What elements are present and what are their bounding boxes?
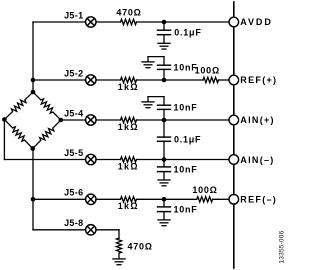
svg-text:10nF: 10nF xyxy=(174,164,198,174)
svg-text:13355-006: 13355-006 xyxy=(279,230,286,263)
svg-text:J5-6: J5-6 xyxy=(64,188,83,198)
svg-text:AVDD: AVDD xyxy=(240,17,272,27)
svg-text:0.1μF: 0.1μF xyxy=(174,134,201,144)
svg-text:0.1μF: 0.1μF xyxy=(174,28,201,38)
svg-text:1kΩ: 1kΩ xyxy=(118,122,139,132)
svg-text:470Ω: 470Ω xyxy=(116,7,141,17)
svg-text:10nF: 10nF xyxy=(174,102,198,112)
svg-text:AIN(–): AIN(–) xyxy=(240,155,274,165)
svg-text:100Ω: 100Ω xyxy=(195,66,220,76)
svg-text:100Ω: 100Ω xyxy=(192,185,217,195)
svg-text:AIN(+): AIN(+) xyxy=(240,115,275,125)
svg-text:REF(+): REF(+) xyxy=(240,75,277,85)
svg-text:REF(–): REF(–) xyxy=(240,195,277,205)
svg-text:1kΩ: 1kΩ xyxy=(118,161,139,171)
svg-text:470Ω: 470Ω xyxy=(128,241,153,251)
svg-text:J5-1: J5-1 xyxy=(64,10,83,20)
svg-text:J5-4: J5-4 xyxy=(64,108,83,118)
svg-text:J5-5: J5-5 xyxy=(64,148,83,158)
svg-text:1kΩ: 1kΩ xyxy=(118,201,139,211)
svg-text:10nF: 10nF xyxy=(174,204,198,214)
svg-text:1kΩ: 1kΩ xyxy=(118,82,139,92)
svg-text:J5-2: J5-2 xyxy=(64,68,83,78)
svg-text:10nF: 10nF xyxy=(174,62,198,72)
svg-text:J5-8: J5-8 xyxy=(64,218,83,228)
